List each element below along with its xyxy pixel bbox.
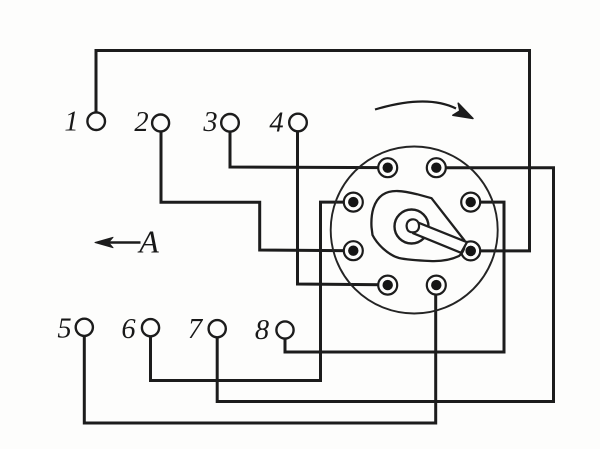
distributor cap body [331, 147, 498, 314]
plug terminal 2 [152, 115, 169, 132]
wire plug4 to cap bottom-left terminal [298, 131, 388, 284]
cap terminal right-lower (to plug 1, rotor points here) [461, 241, 480, 260]
cap terminal left-upper (to plug 6) [344, 193, 363, 212]
svg-text:8: 8 [255, 315, 269, 346]
svg-text:6: 6 [121, 314, 136, 345]
svg-text:3: 3 [202, 107, 217, 138]
wire plug8 to cap right-upper terminal [285, 202, 504, 352]
wire plug3 to cap top-left terminal [230, 132, 388, 168]
rotor hub [395, 210, 429, 244]
svg-text:1: 1 [64, 107, 78, 138]
svg-text:A: A [137, 224, 159, 260]
wire plug1 to cap terminal (rotor position) [96, 51, 530, 251]
wire plug2 to cap left-lower terminal [161, 132, 353, 251]
svg-text:5: 5 [57, 314, 71, 345]
cap terminal bottom-left (to plug 4) [378, 276, 397, 295]
svg-text:2: 2 [134, 107, 148, 138]
plug terminal 1 [87, 112, 105, 130]
svg-text:7: 7 [188, 314, 204, 345]
cap terminal right-lower dot redrawn over rotor arm tip [466, 246, 476, 256]
plug terminal 4 [289, 114, 307, 132]
plug terminal 5 [76, 319, 93, 336]
cap terminal bottom-right (to plug 5) [427, 276, 446, 295]
plug terminal 6 [142, 319, 159, 336]
plug terminal 7 [209, 320, 226, 337]
cap terminal top-right (to plug 7) [427, 158, 446, 177]
cap terminal left-lower (to plug 2) [344, 241, 363, 260]
svg-text:4: 4 [269, 108, 283, 139]
plug terminal 8 [276, 321, 293, 338]
view direction arrow A [95, 237, 141, 247]
wire plug5 to cap bottom-right terminal [84, 285, 435, 423]
plug terminal 3 [221, 114, 239, 132]
cap terminal top-left (to plug 3) [378, 158, 397, 177]
cap terminal right-upper (to plug 8) [461, 193, 480, 212]
rotor body [371, 191, 464, 261]
rotor center contact [407, 219, 419, 232]
rotation direction arrow [375, 101, 473, 118]
rotor arm [413, 222, 467, 253]
wire plug7 to cap top-right terminal [217, 168, 553, 402]
wire plug6 to cap left-upper terminal [151, 202, 354, 380]
